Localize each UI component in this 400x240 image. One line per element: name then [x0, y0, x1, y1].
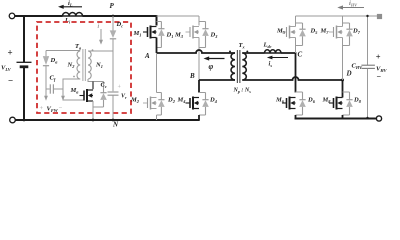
svg-text:−: −: [377, 72, 382, 81]
junction battery bottom: [23, 119, 26, 122]
wire secondary top to Ldc: [242, 52, 264, 54]
svg-text:+: +: [376, 52, 381, 62]
wire M3 drain stub: [198, 16, 200, 26]
svg-text:Vr: Vr: [121, 94, 127, 101]
svg-text:C: C: [298, 51, 303, 59]
diode Da: [43, 51, 49, 90]
dot Tx primary: [229, 51, 231, 53]
capacitor Cf: [46, 84, 63, 93]
terminal square top-right: [377, 14, 382, 19]
transistor M5: [282, 26, 296, 39]
svg-text:A: A: [144, 52, 150, 60]
wire M7-D7 top cell loop: [343, 23, 350, 46]
wire bottom rail left: [15, 119, 199, 121]
arrow is current: [271, 57, 288, 59]
wire Ta N1 bottom to Ma drain: [88, 79, 104, 82]
wire M5 drain stub: [295, 16, 297, 27]
wire output branch bottom: [367, 69, 369, 118]
wire M4-D4 bottom cell loop: [199, 93, 206, 116]
arrow iHV current: [341, 7, 364, 9]
terminal output bottom-right: [376, 116, 381, 121]
junction output top: [366, 15, 368, 17]
arrow flux phi: [207, 58, 225, 60]
wire M6 source to rail: [295, 115, 297, 119]
wire node B leg to M4: [198, 80, 200, 93]
wire top feed to M1: [83, 16, 157, 26]
junction output bottom: [366, 117, 368, 119]
node P dot: [112, 15, 115, 18]
terminal input bottom-left: [10, 117, 16, 123]
diode D6: [299, 92, 306, 115]
svg-text:N: N: [112, 121, 119, 128]
wire Ta N2 bottom to Cf: [63, 79, 85, 100]
dot Tx secondary: [246, 51, 248, 53]
arrow iL current: [62, 6, 82, 8]
wire M5 source to node C: [295, 38, 297, 54]
wire Ma source to rail N: [92, 107, 94, 120]
battery VLV positive wire: [23, 15, 25, 62]
capacitor CHV: [361, 65, 375, 68]
svg-text:B: B: [189, 72, 195, 80]
transformer Ta: [77, 49, 91, 81]
transistor M6: [282, 97, 296, 110]
dot Ta winding top-right: [92, 49, 94, 51]
wire M1 source to node A: [156, 38, 158, 54]
wire Cc branch: [112, 51, 114, 91]
wire M8-D8 bottom cell loop: [343, 92, 350, 115]
transformer Tx: [231, 50, 246, 83]
wire M6-D6 bottom cell loop: [296, 92, 303, 115]
transistor M4: [186, 97, 200, 110]
wire M3 source leg down to node B: [198, 38, 200, 81]
diode DMa: [100, 82, 107, 108]
wire M1-D1 top cell loop: [157, 22, 162, 48]
arrow ic current: [100, 29, 102, 40]
battery negative wire: [23, 67, 25, 120]
dot Ta winding bottom-left: [73, 76, 75, 78]
wire right bridge top rail: [296, 15, 378, 17]
wire Ta N1 top to Dc node: [88, 50, 113, 52]
svg-text:+: +: [8, 48, 13, 58]
diode D1: [158, 22, 165, 48]
wire M2 source to rail: [156, 115, 158, 120]
wire output branch top: [367, 16, 369, 65]
diode D2: [158, 93, 165, 116]
transistor M1: [143, 26, 157, 39]
arrow VFW right node: [61, 96, 65, 101]
transistor M7: [329, 26, 343, 39]
wire secondary bottom node D with hop: [242, 77, 342, 80]
wire bottom rail right: [295, 118, 377, 120]
diode D5: [299, 23, 306, 46]
wire Ta N2 top to Da: [46, 50, 80, 52]
diode D8: [346, 92, 353, 115]
wire left bridge top rail: [157, 15, 200, 17]
junction node D: [341, 79, 344, 82]
wire Ma drain stub: [92, 82, 94, 90]
wire M5-D5 top cell loop: [296, 23, 303, 46]
transistor Ma: [80, 89, 94, 102]
inductor Ldc: [265, 50, 282, 53]
transistor M8: [329, 97, 343, 110]
diode Dc: [110, 30, 117, 51]
diode D7: [346, 23, 353, 46]
wire left leg A down to M2: [156, 53, 158, 93]
junction Ma to rail: [92, 119, 95, 122]
clamp circuit boundary box: [37, 22, 131, 113]
transistor M3: [186, 26, 200, 39]
terminal input top-left: [9, 13, 15, 19]
wire top feed left: [15, 15, 63, 17]
wire Ma cell bottom: [93, 101, 104, 107]
capacitor Cc: [108, 92, 119, 120]
svg-text:D: D: [346, 70, 352, 78]
battery VLV: [17, 61, 32, 63]
diode D4: [202, 93, 209, 116]
wire M3-D3 top cell loop: [199, 22, 206, 48]
wire M7 drain stub: [342, 16, 344, 27]
arrow VFW left node: [45, 89, 47, 96]
svg-text:+: +: [40, 105, 44, 112]
svg-text:Np : Ns: Np : Ns: [233, 87, 252, 94]
wire M2-D2 bottom cell loop: [157, 93, 162, 116]
wire M8 source to rail: [342, 115, 344, 119]
svg-text:−: −: [8, 76, 13, 86]
wire node P tap down: [112, 16, 114, 31]
wire M7 source leg to node D: [342, 38, 344, 81]
inductor Li: [63, 12, 83, 16]
wire Ldc to node C down leg: [281, 53, 296, 93]
svg-text:P: P: [110, 2, 115, 10]
svg-text:−: −: [59, 105, 63, 112]
junction Cc to rail: [112, 119, 115, 122]
transistor M2: [143, 97, 157, 110]
svg-text:φ: φ: [209, 62, 214, 71]
wire M4 source to rail: [198, 115, 200, 121]
wire node A to primary with hop: [157, 50, 236, 53]
diode D3: [202, 22, 209, 48]
wire node B to primary: [199, 79, 235, 81]
wire node D to M8 drain: [342, 80, 344, 98]
